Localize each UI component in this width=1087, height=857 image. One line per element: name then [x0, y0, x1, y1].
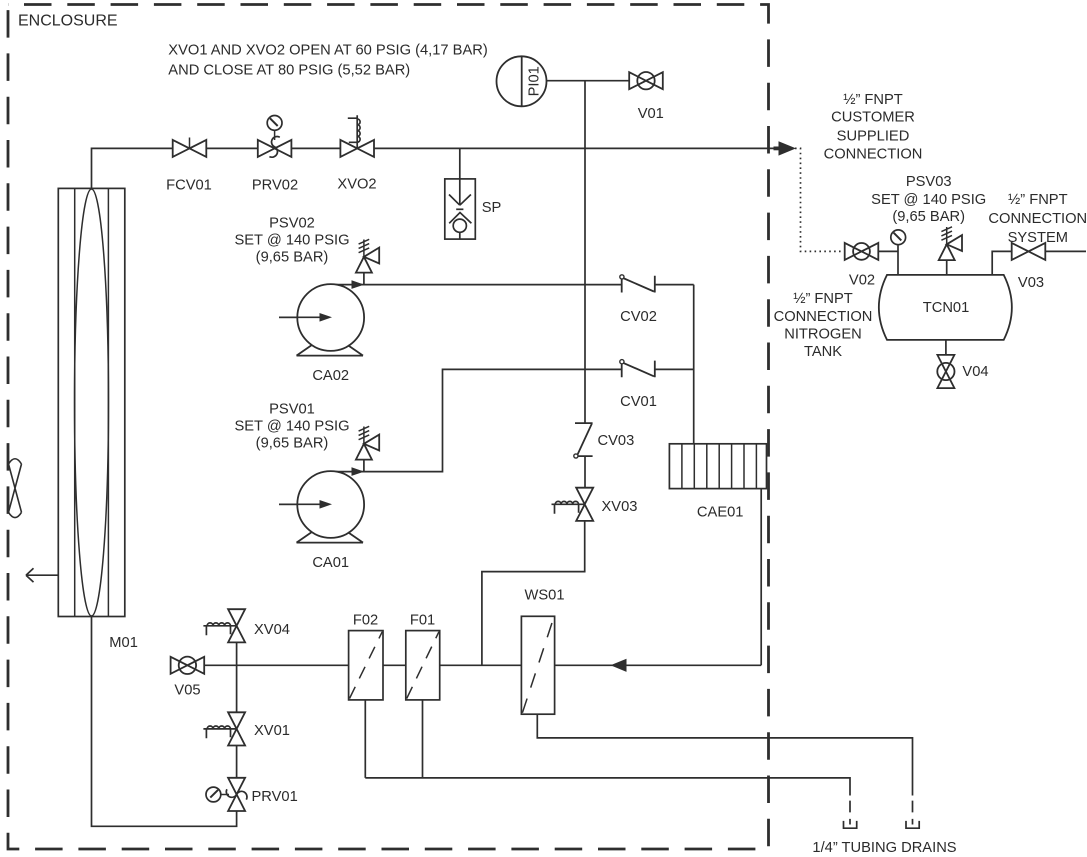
svg-text:CUSTOMER: CUSTOMER [831, 110, 915, 126]
svg-text:XV03: XV03 [602, 499, 638, 515]
svg-text:SET @ 140 PSIG: SET @ 140 PSIG [234, 419, 349, 435]
svg-text:V04: V04 [962, 364, 988, 380]
svg-text:(9,65 BAR): (9,65 BAR) [256, 435, 329, 451]
svg-text:CV02: CV02 [620, 309, 657, 325]
svg-text:PSV03: PSV03 [906, 174, 952, 190]
svg-text:(9,65 BAR): (9,65 BAR) [892, 209, 965, 225]
svg-text:ENCLOSURE: ENCLOSURE [18, 13, 118, 30]
svg-text:PSV02: PSV02 [269, 216, 315, 232]
svg-text:V03: V03 [1018, 275, 1044, 291]
svg-text:TCN01: TCN01 [923, 300, 970, 316]
svg-text:½” FNPT: ½” FNPT [1008, 192, 1068, 208]
svg-text:CA01: CA01 [312, 555, 349, 571]
svg-text:PRV01: PRV01 [252, 789, 298, 805]
svg-text:SET @ 140 PSIG: SET @ 140 PSIG [871, 192, 986, 208]
svg-text:CONNECTION: CONNECTION [988, 211, 1087, 227]
svg-text:(9,65 BAR): (9,65 BAR) [256, 249, 329, 265]
svg-text:CV01: CV01 [620, 394, 657, 410]
svg-text:PI01: PI01 [527, 66, 543, 96]
svg-text:CAE01: CAE01 [697, 505, 744, 521]
svg-text:SP: SP [482, 200, 502, 216]
svg-text:CONNECTION: CONNECTION [774, 309, 873, 325]
svg-text:SUPPLIED: SUPPLIED [837, 128, 910, 144]
svg-text:SET @ 140 PSIG: SET @ 140 PSIG [234, 232, 349, 248]
svg-text:F01: F01 [410, 612, 435, 628]
svg-text:V05: V05 [174, 682, 200, 698]
svg-text:V02: V02 [849, 272, 875, 288]
svg-text:AND CLOSE AT 80 PSIG (5,52 BAR: AND CLOSE AT 80 PSIG (5,52 BAR) [168, 63, 410, 79]
svg-text:XVO2: XVO2 [337, 177, 376, 193]
svg-text:PRV02: PRV02 [252, 178, 298, 194]
svg-text:XV01: XV01 [254, 723, 290, 739]
svg-text:½” FNPT: ½” FNPT [793, 291, 853, 307]
svg-text:XVO1 AND XVO2 OPEN AT 60 PSIG: XVO1 AND XVO2 OPEN AT 60 PSIG (4,17 BAR) [168, 42, 487, 58]
svg-text:NITROGEN: NITROGEN [784, 326, 862, 342]
svg-text:CONNECTION: CONNECTION [824, 147, 923, 163]
svg-text:F02: F02 [353, 612, 378, 628]
svg-text:SYSTEM: SYSTEM [1008, 230, 1068, 246]
svg-text:½” FNPT: ½” FNPT [843, 92, 903, 108]
svg-text:CV03: CV03 [598, 433, 635, 449]
svg-text:XV04: XV04 [254, 622, 290, 638]
svg-text:M01: M01 [109, 635, 138, 651]
svg-text:TANK: TANK [804, 344, 842, 360]
svg-text:1/4” TUBING DRAINS: 1/4” TUBING DRAINS [812, 840, 956, 856]
svg-text:WS01: WS01 [525, 587, 565, 603]
svg-text:CA02: CA02 [312, 368, 349, 384]
svg-text:PSV01: PSV01 [269, 402, 315, 418]
svg-text:V01: V01 [638, 106, 664, 122]
svg-text:FCV01: FCV01 [166, 178, 212, 194]
